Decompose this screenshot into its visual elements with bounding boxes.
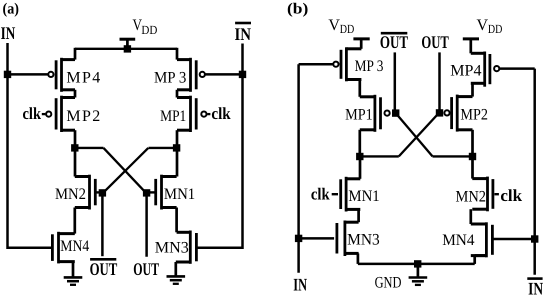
wire IN vertical + MN4 gate run (a) [8, 43, 53, 248]
ground MN3 (a) [167, 262, 186, 284]
svg-text:MP2: MP2 [460, 106, 488, 123]
transistor MP2 (b) [452, 95, 473, 132]
node INbar (b) label [527, 278, 543, 298]
svg-text:MP1: MP1 [345, 107, 373, 124]
wire right drain down to MN2 (b) [471, 157, 474, 179]
wire MP2 drain down to cross node (a) [74, 130, 77, 176]
transistor MN2 (a) [75, 175, 96, 210]
wire cross diagonal right-to-left (a) [103, 148, 149, 193]
transistor MN3 (a) [177, 231, 197, 264]
svg-text:OUT: OUT [90, 259, 118, 279]
node INbar (a) label [235, 23, 252, 44]
node drain junction right (a) [173, 144, 180, 151]
svg-text:clk: clk [311, 185, 330, 204]
transistor MP4 (a) [56, 58, 75, 92]
wire MP1 drain down to cross node (a) [176, 130, 179, 176]
wire MP3 gate lead to left rail (b) [299, 63, 333, 66]
svg-text:IN: IN [235, 24, 252, 44]
svg-text:(a): (a) [3, 1, 20, 18]
wire rail stub right (a) [176, 48, 179, 60]
transistor MN3 (b) [337, 221, 359, 257]
power VDD left (b) [328, 17, 369, 49]
node VDD junction dot (a) [124, 45, 131, 52]
wire clk stub left (a) [42, 113, 46, 115]
bubble MP1 gate clk (a) [201, 112, 206, 117]
wire MP1 drain down to cross node (b) [358, 130, 361, 157]
transistor MN1 (a) [156, 175, 177, 210]
node junction dot right outer (b) [531, 235, 538, 242]
wire MP4-MP2 link (a) [74, 90, 77, 98]
wire MP4 gate lead (a) [8, 73, 48, 76]
wire VDD rail (a) [75, 48, 177, 50]
ground MN4 (a) [64, 262, 83, 285]
node MP1 gate junction (b) [392, 109, 399, 116]
node junction dot on INbar wire (a) [239, 71, 246, 78]
label OUTbar (b) [380, 32, 408, 52]
svg-text:MN4: MN4 [60, 238, 89, 255]
wire MN2 gate lead (a) [95, 191, 102, 193]
wire OUT vertical (b) [438, 52, 441, 113]
wire MN3 gate lead (b) [299, 237, 335, 240]
wire MN2-MN4 link (b) [469, 209, 472, 224]
power VDD (a) [120, 17, 158, 49]
transistor MN1 (b) [341, 177, 361, 212]
wire MN4 bottom lead ext (b) [475, 254, 487, 257]
node junction dot left outer (b) [295, 235, 302, 242]
power VDD right (b) [463, 17, 503, 53]
svg-text:MN2: MN2 [55, 186, 86, 203]
node MN2 gate junction (a) [99, 189, 106, 196]
svg-text:MP2: MP2 [66, 108, 100, 125]
svg-text:clk: clk [23, 104, 42, 123]
node drain junction left (a) [71, 144, 78, 151]
node GND junction dot (b) [414, 260, 421, 267]
transistor MN4 (a) [52, 232, 74, 264]
wire bottom rail (b) [358, 263, 475, 266]
wire OUTbar vertical (b) [394, 52, 397, 113]
wire cross horizontal left (b) [360, 155, 399, 157]
svg-text:MN3: MN3 [155, 239, 189, 256]
bubble MP4 gate (b) [494, 66, 499, 71]
node drain junction right (b) [469, 153, 476, 160]
svg-text:MP 3: MP 3 [154, 69, 186, 86]
svg-text:DD: DD [340, 22, 355, 36]
svg-text:MP4: MP4 [66, 69, 100, 86]
label OUTbar (a) [90, 259, 118, 279]
wire MP4-MP2 link (b) [471, 83, 474, 96]
svg-text:MP 3: MP 3 [355, 58, 384, 75]
wire MN1 gate lead (a) [147, 191, 156, 193]
svg-text:MN1: MN1 [348, 188, 379, 205]
svg-text:clk: clk [211, 104, 231, 123]
bubble MP2 gate (b) [444, 110, 449, 115]
svg-text:DD: DD [488, 22, 503, 36]
svg-text:DD: DD [141, 23, 157, 37]
wire MN4 gate lead (b) [492, 238, 534, 241]
transistor MP2 (a) [56, 96, 75, 132]
bubble MP3 gate (a) [200, 72, 205, 77]
wire MP4 gate lead to right rail (b) [500, 67, 535, 70]
wire clk stub right (a) [207, 113, 210, 115]
wire INbar vertical + MN3 gate run (a) [196, 44, 242, 248]
svg-text:IN: IN [293, 275, 307, 295]
transistor MP1 (a) [177, 96, 196, 132]
wire MP3 gate lead (a) [206, 73, 243, 76]
node junction dot on IN wire (a) [4, 71, 11, 78]
svg-text:MP4: MP4 [450, 62, 481, 79]
bubble MP2 gate clk (a) [46, 112, 51, 117]
bubble MP3 gate (b) [333, 62, 338, 67]
wire MN2-MN4 link (a) [73, 208, 76, 234]
wire MN3 source to rail (b) [357, 253, 360, 264]
svg-text:IN: IN [528, 278, 543, 297]
wire cross diagonal right-up (b) [396, 113, 433, 156]
transistor MP1 (b) [360, 95, 381, 132]
svg-text:MN3: MN3 [347, 232, 380, 249]
wire MN3 source to ground (a) [176, 261, 191, 264]
wire MP2 drain down to cross node (b) [471, 130, 474, 157]
wire OUTbar vertical (a) [101, 193, 104, 256]
transistor MP3 (a) [177, 58, 196, 92]
wire cross diagonal left-up (b) [399, 113, 439, 156]
wire MN2 gate lead (b) [495, 193, 499, 195]
transistor MN4 (b) [471, 222, 493, 257]
transistor MP3 (b) [341, 47, 361, 81]
ground GND (b) [409, 264, 428, 285]
wire cross horizontal right (a) [149, 147, 177, 149]
svg-text:IN: IN [1, 23, 16, 43]
svg-text:MN1: MN1 [164, 186, 195, 203]
svg-text:MP1: MP1 [160, 108, 186, 125]
wire cross horizontal left (a) [75, 147, 104, 149]
svg-text:GND: GND [375, 274, 402, 291]
wire OUT vertical (a) [145, 193, 148, 257]
wire right outer vertical (b) [533, 69, 536, 275]
wire rail stub left (a) [74, 48, 77, 60]
node drain junction left (b) [356, 153, 363, 160]
svg-text:OUT: OUT [133, 259, 159, 279]
wire MP3-MP1 link (b) [358, 80, 361, 97]
wire MP3-MP1 link (a) [176, 90, 179, 98]
svg-text:MN4: MN4 [442, 232, 474, 249]
wire cross diagonal left-to-right (a) [104, 148, 147, 193]
wire MN1 gate lead (b) [332, 193, 338, 195]
transistor MP4 (b) [471, 52, 490, 87]
wire left outer vertical (b) [297, 64, 300, 273]
wire MN1-MN3 link (b) [357, 209, 360, 222]
bubble MP4 gate (a) [48, 72, 53, 77]
wire MN4 source to rail (b) [473, 256, 476, 264]
transistor MN2 (b) [472, 177, 493, 212]
svg-text:V: V [477, 17, 489, 34]
svg-text:clk: clk [500, 186, 522, 205]
svg-text:MN2: MN2 [456, 188, 487, 205]
bubble MP1 gate (b) [385, 111, 390, 116]
wire left drain down to MN1 (b) [359, 157, 362, 179]
node MN1 gate junction (a) [143, 189, 150, 196]
svg-text:V: V [328, 17, 340, 34]
svg-text:OUT: OUT [380, 32, 408, 52]
node MP2 gate junction (b) [436, 109, 443, 116]
wire cross horizontal right (b) [433, 155, 473, 157]
svg-text:OUT: OUT [421, 32, 448, 52]
svg-text:(b): (b) [287, 1, 308, 18]
wire MN1-MN3 link (a) [175, 208, 178, 233]
